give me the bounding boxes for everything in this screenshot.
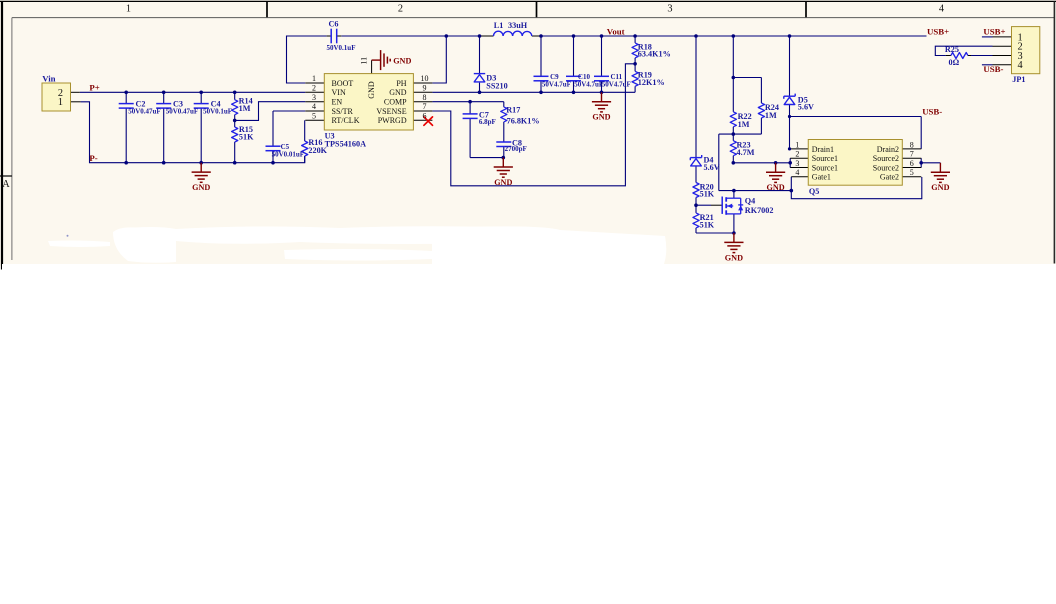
svg-text:51K: 51K bbox=[700, 190, 715, 199]
svg-text:5: 5 bbox=[910, 168, 914, 177]
svg-text:9: 9 bbox=[423, 84, 427, 93]
svg-text:GND: GND bbox=[725, 253, 743, 262]
svg-text:4.7M: 4.7M bbox=[737, 148, 755, 157]
svg-text:EN: EN bbox=[332, 98, 343, 107]
svg-text:Source2: Source2 bbox=[873, 154, 899, 163]
svg-text:76.8K1%: 76.8K1% bbox=[507, 116, 540, 125]
svg-text:L1: L1 bbox=[494, 21, 504, 30]
svg-text:50V4.7uF: 50V4.7uF bbox=[574, 81, 603, 89]
svg-text:5.6V: 5.6V bbox=[798, 102, 814, 111]
svg-text:R17: R17 bbox=[506, 106, 520, 115]
svg-text:USB+: USB+ bbox=[983, 26, 1005, 36]
svg-text:Gate1: Gate1 bbox=[812, 173, 831, 182]
svg-text:5: 5 bbox=[312, 112, 316, 121]
svg-text:6: 6 bbox=[910, 159, 914, 168]
svg-text:GND: GND bbox=[931, 183, 949, 192]
svg-text:Source2: Source2 bbox=[873, 163, 899, 172]
svg-text:3: 3 bbox=[312, 93, 316, 102]
svg-text:USB-: USB- bbox=[983, 64, 1003, 74]
svg-text:1M: 1M bbox=[765, 111, 777, 120]
svg-text:GND: GND bbox=[393, 57, 411, 66]
svg-text:USB-: USB- bbox=[922, 106, 942, 116]
svg-text:50V0.47uF: 50V0.47uF bbox=[128, 108, 160, 116]
svg-text:7: 7 bbox=[910, 150, 914, 159]
svg-text:3: 3 bbox=[795, 159, 799, 168]
svg-text:Vin: Vin bbox=[42, 73, 55, 83]
svg-text:GND: GND bbox=[592, 113, 610, 122]
svg-text:2: 2 bbox=[398, 3, 403, 14]
svg-text:JP1: JP1 bbox=[1012, 75, 1025, 84]
svg-text:TPS54160A: TPS54160A bbox=[325, 140, 366, 149]
svg-text:GND: GND bbox=[494, 178, 512, 187]
svg-text:VIN: VIN bbox=[332, 88, 346, 97]
svg-text:COMP: COMP bbox=[384, 98, 407, 107]
svg-text:VSENSE: VSENSE bbox=[376, 107, 406, 116]
svg-text:33uH: 33uH bbox=[508, 21, 528, 30]
svg-text:1M: 1M bbox=[738, 120, 750, 129]
svg-text:1M: 1M bbox=[239, 104, 251, 113]
svg-text:1: 1 bbox=[58, 97, 63, 108]
svg-text:51K: 51K bbox=[239, 133, 254, 142]
svg-text:Q5: Q5 bbox=[809, 187, 819, 196]
svg-text:Drain1: Drain1 bbox=[812, 145, 834, 154]
svg-text:50V0.1uF: 50V0.1uF bbox=[327, 44, 356, 52]
svg-text:4: 4 bbox=[1018, 60, 1023, 71]
svg-text:0Ω: 0Ω bbox=[949, 58, 960, 67]
svg-text:4: 4 bbox=[312, 102, 316, 111]
svg-text:P+: P+ bbox=[89, 82, 99, 92]
svg-text:1: 1 bbox=[312, 74, 316, 83]
svg-text:6: 6 bbox=[423, 112, 427, 121]
svg-text:1: 1 bbox=[795, 140, 799, 149]
svg-text:PH: PH bbox=[396, 79, 406, 88]
svg-text:6.8pF: 6.8pF bbox=[479, 118, 496, 126]
svg-text:GND: GND bbox=[367, 81, 376, 99]
svg-text:SS210: SS210 bbox=[486, 82, 507, 91]
svg-text:Source1: Source1 bbox=[812, 163, 838, 172]
svg-text:1: 1 bbox=[126, 3, 131, 14]
svg-text:2: 2 bbox=[795, 150, 799, 159]
svg-text:SS/TR: SS/TR bbox=[332, 107, 354, 116]
svg-text:7: 7 bbox=[423, 102, 427, 111]
svg-text:BOOT: BOOT bbox=[332, 79, 354, 88]
svg-text:8: 8 bbox=[423, 93, 427, 102]
svg-text:Source1: Source1 bbox=[812, 154, 838, 163]
svg-text:50V4.7uF: 50V4.7uF bbox=[602, 81, 631, 89]
svg-text:50V4.7uF: 50V4.7uF bbox=[542, 81, 571, 89]
svg-text:GND: GND bbox=[192, 183, 210, 192]
svg-text:4: 4 bbox=[795, 168, 799, 177]
svg-text:11: 11 bbox=[359, 57, 368, 65]
svg-text:63.4K1%: 63.4K1% bbox=[638, 50, 671, 59]
svg-text:50V0.1uF: 50V0.1uF bbox=[203, 108, 232, 116]
svg-text:C6: C6 bbox=[329, 20, 339, 29]
svg-text:2: 2 bbox=[312, 84, 316, 93]
svg-text:3: 3 bbox=[667, 3, 672, 14]
svg-text:51K: 51K bbox=[700, 221, 715, 230]
svg-text:Gate2: Gate2 bbox=[880, 173, 899, 182]
svg-text:A: A bbox=[2, 179, 10, 190]
svg-text:8: 8 bbox=[910, 140, 914, 149]
svg-text:5.6V: 5.6V bbox=[704, 163, 720, 172]
svg-text:4: 4 bbox=[939, 3, 944, 14]
svg-text:50V0.01uF: 50V0.01uF bbox=[272, 151, 304, 159]
svg-text:P-: P- bbox=[89, 153, 97, 163]
svg-text:GND: GND bbox=[389, 88, 407, 97]
svg-text:RT/CLK: RT/CLK bbox=[332, 116, 360, 125]
svg-text:2700pF: 2700pF bbox=[505, 145, 527, 153]
svg-text:12K1%: 12K1% bbox=[638, 78, 665, 87]
svg-text:USB+: USB+ bbox=[927, 27, 949, 37]
svg-text:10: 10 bbox=[421, 74, 429, 83]
svg-text:50V0.47uF: 50V0.47uF bbox=[166, 108, 198, 116]
svg-text:R25: R25 bbox=[945, 45, 959, 54]
svg-text:Drain2: Drain2 bbox=[877, 145, 899, 154]
svg-text:Vout: Vout bbox=[607, 27, 625, 37]
svg-text:Q4: Q4 bbox=[745, 196, 755, 205]
svg-text:GND: GND bbox=[766, 183, 784, 192]
svg-text:RK7002: RK7002 bbox=[745, 206, 774, 215]
svg-text:PWRGD: PWRGD bbox=[378, 116, 407, 125]
